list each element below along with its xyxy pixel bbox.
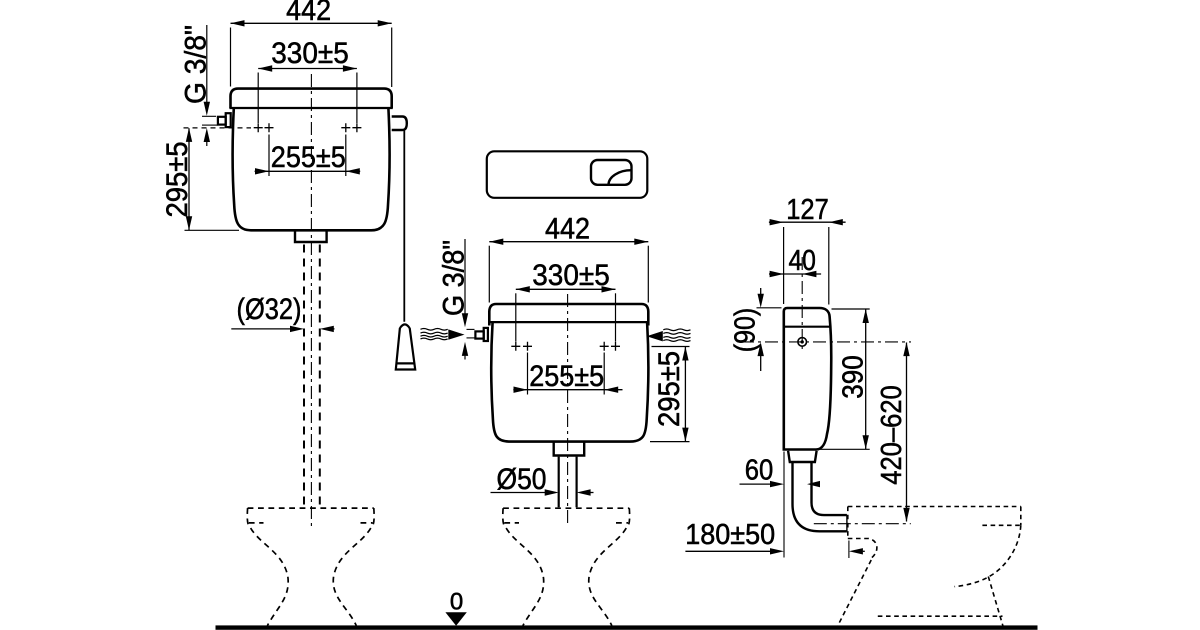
dim 295±5 view1 bbox=[188, 128, 190, 230]
mounting holes view1 bbox=[254, 123, 362, 132]
cistern 3 outlet nub bbox=[788, 451, 817, 462]
pull-rod mount bbox=[392, 117, 407, 131]
svg-text:255±5: 255±5 bbox=[529, 360, 604, 393]
dim 330±5 view1 bbox=[258, 68, 357, 70]
svg-text:(90): (90) bbox=[729, 308, 761, 353]
inlet circle bbox=[798, 338, 807, 347]
cistern 2 inlet nipple flange bbox=[484, 328, 488, 341]
cistern 3 side body bbox=[784, 308, 831, 450]
toilet bowl view1 dashed bbox=[247, 508, 374, 625]
dim 442 view2 bbox=[489, 241, 648, 243]
cistern 2 outlet nub bbox=[554, 443, 585, 456]
extension line tank back bbox=[783, 452, 785, 558]
svg-text:255±5: 255±5 bbox=[271, 141, 346, 174]
dim 420-620 bbox=[906, 343, 908, 522]
svg-text:60: 60 bbox=[745, 455, 774, 487]
svg-text:330±5: 330±5 bbox=[532, 259, 610, 292]
dim 127 bbox=[769, 221, 846, 223]
dim 60 bbox=[740, 483, 771, 485]
svg-text:442: 442 bbox=[286, 0, 331, 27]
dim (90) bbox=[760, 288, 762, 295]
elbow pipe outer bbox=[793, 463, 847, 532]
svg-text:40: 40 bbox=[788, 245, 816, 277]
cistern 3 lid bottom line bbox=[784, 326, 831, 328]
svg-text:Ø50: Ø50 bbox=[497, 463, 547, 496]
svg-text:420–620: 420–620 bbox=[876, 385, 908, 485]
dim 295±5 view2 bbox=[684, 347, 686, 441]
toilet bowl view2 dashed bbox=[503, 508, 630, 625]
axis horizontal bbox=[741, 341, 911, 343]
mounting holes view2 bbox=[511, 342, 620, 351]
cistern 1 flush-valve outlet nub bbox=[295, 231, 327, 242]
svg-text:390: 390 bbox=[837, 355, 869, 399]
cistern 2 lid bottom line bbox=[488, 321, 649, 323]
cistern 2 flush pipe bbox=[558, 457, 560, 508]
cistern 1 lid bottom line bbox=[229, 107, 392, 109]
pipe axis bbox=[814, 523, 911, 525]
svg-text:442: 442 bbox=[545, 212, 590, 245]
cistern 1 inlet nipple tip bbox=[218, 117, 226, 125]
svg-text:127: 127 bbox=[786, 194, 829, 226]
ground line bbox=[216, 625, 1038, 629]
pull rod bbox=[403, 130, 405, 322]
cistern 1 body bbox=[233, 108, 390, 230]
cistern 2 lid bbox=[489, 304, 648, 326]
cistern 1 inlet nipple flange bbox=[226, 113, 231, 127]
hole axis dashed view1 bbox=[184, 127, 252, 129]
svg-text:(Ø32): (Ø32) bbox=[237, 293, 302, 326]
svg-text:180±50: 180±50 bbox=[685, 519, 775, 551]
dim 390 bbox=[865, 309, 867, 449]
cistern 1 lid bbox=[231, 89, 392, 108]
dim 40 bbox=[769, 273, 821, 275]
svg-text:295±5: 295±5 bbox=[161, 142, 194, 218]
dim 255±5 view1 bbox=[255, 170, 361, 172]
svg-text:295±5: 295±5 bbox=[653, 351, 686, 427]
dashed flush pipe view1 bbox=[303, 245, 305, 508]
axis vertical bbox=[801, 257, 803, 353]
elbow pipe inner bbox=[812, 463, 847, 515]
wall arrow right bbox=[647, 331, 663, 341]
wall arrow left bbox=[448, 329, 464, 339]
cistern 2 body bbox=[491, 322, 648, 442]
centerline view2 bbox=[567, 294, 569, 524]
flush button bbox=[591, 160, 632, 185]
flush button split bbox=[609, 170, 632, 184]
dim 442 view1 bbox=[231, 22, 392, 24]
dim 255±5 view2 bbox=[513, 389, 622, 391]
pull handle bbox=[396, 324, 415, 369]
toilet side view dashed bbox=[836, 507, 1021, 629]
pipe end cap bbox=[846, 515, 848, 531]
cistern 2 inlet nipple tip bbox=[475, 331, 483, 338]
dim 330±5 view2 bbox=[516, 288, 616, 290]
svg-text:330±5: 330±5 bbox=[271, 37, 349, 70]
lid top panel bbox=[487, 151, 648, 198]
svg-text:0: 0 bbox=[450, 589, 463, 616]
svg-text:G 3/8": G 3/8" bbox=[180, 25, 213, 104]
centerline view1 bbox=[310, 74, 312, 527]
dim 180±50 bbox=[685, 550, 770, 552]
